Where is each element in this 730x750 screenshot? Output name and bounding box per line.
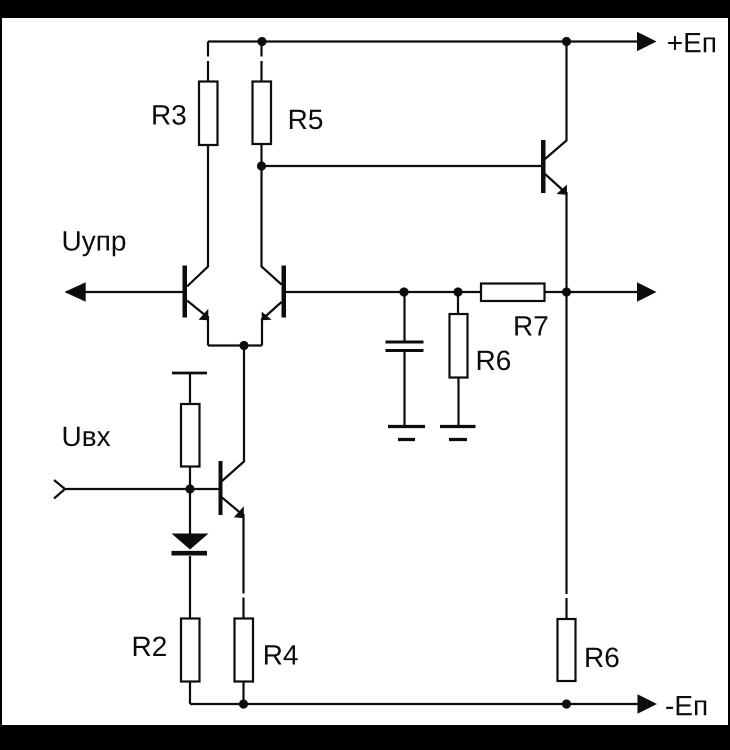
transistor VT4 base bar <box>219 461 223 515</box>
ground GND2 bar1 <box>440 425 476 428</box>
wire node B to VT3 base <box>262 165 542 167</box>
transistor VT1 base bar <box>183 266 188 318</box>
label R2 <box>134 636 166 656</box>
label R6a <box>478 350 510 370</box>
wire R6a bottom to ground <box>457 378 459 427</box>
input terminal bar <box>172 372 207 375</box>
junction dot bottom R6 node <box>562 699 571 708</box>
arrow Uupr left <box>65 282 86 301</box>
VT3 emitter arrowhead <box>556 185 567 195</box>
wire tail node down to VT4 collector <box>222 346 244 482</box>
wire R5 top stub <box>260 42 262 82</box>
resistor R5 <box>253 82 272 145</box>
label R3 <box>153 105 185 125</box>
label -Ep <box>666 696 706 715</box>
label Uupr <box>64 231 126 256</box>
wire output rail down to R6 bottom <box>565 292 567 619</box>
wire common tail horizontal <box>208 344 262 346</box>
resistor R4 <box>235 619 254 682</box>
wire VT1 emitter diagonal <box>187 301 208 318</box>
junction dot top R5 node <box>257 37 266 46</box>
arrow +Ep <box>637 32 657 51</box>
wire VT1 base to left arrow <box>66 291 183 293</box>
ground GND1 bar1 <box>388 425 425 428</box>
wire VT3 collector up to rail <box>545 42 567 160</box>
wire capacitor top <box>403 292 405 341</box>
junction dot top right node <box>562 37 571 46</box>
wire node B to VT2 collector <box>262 166 282 285</box>
wire VT2 base to node C <box>286 291 404 293</box>
wire VT2 emitter down <box>261 318 263 346</box>
wire VT4 emitter down to R4 <box>242 514 244 619</box>
label R5 <box>290 110 322 130</box>
diode VD1 cathode bar <box>172 551 208 556</box>
wire diode to R2 <box>189 556 191 619</box>
VT4 emitter arrowhead <box>234 506 244 518</box>
label R4 <box>265 645 298 664</box>
wire R5 bottom to node B <box>260 144 262 166</box>
transistor VT3 base bar <box>541 140 546 193</box>
wire VT3 emitter diagonal <box>545 174 567 194</box>
wire VT4 base to input node <box>190 488 219 490</box>
wire VT1 emitter down <box>207 316 209 346</box>
label Uvx <box>64 427 111 447</box>
junction dot node C <box>399 287 408 296</box>
resistor R2 <box>181 619 200 682</box>
junction dot output node <box>562 287 571 296</box>
VT2 emitter arrowhead <box>262 312 272 321</box>
wire R1 bottom to input node <box>189 467 191 490</box>
capacitor C1 bottom plate <box>386 349 424 352</box>
ground GND2 bar2 <box>449 438 467 441</box>
ground GND1 bar2 <box>398 438 415 441</box>
resistor R6b <box>558 619 576 681</box>
arrow -Ep <box>638 694 658 713</box>
diode VD1 triangle <box>172 534 209 550</box>
label R7 <box>515 316 547 335</box>
junction dot node B <box>257 161 266 170</box>
junction dot input node <box>185 484 194 493</box>
wire node D to R7 left <box>458 291 481 293</box>
resistor R7 <box>481 284 545 302</box>
wire input terminal down to R1 <box>189 373 191 404</box>
wire input lead <box>65 488 190 490</box>
wire R6a top <box>457 292 459 314</box>
wire node C to node D <box>404 291 458 293</box>
wire R7 right to output arrow <box>545 291 639 293</box>
label +Ep <box>668 33 715 52</box>
wire VT4 emitter diagonal <box>222 498 244 516</box>
wire VT2 emitter diagonal <box>262 302 282 320</box>
input chevron arrow <box>54 480 65 499</box>
resistor R6a shunt <box>450 314 468 378</box>
wire R2 bottom <box>189 682 191 705</box>
wire top +Ep rail <box>208 40 638 42</box>
VT1 emitter arrowhead <box>199 309 209 321</box>
wire capacitor bottom to ground <box>403 352 405 427</box>
transistor VT2 base bar <box>282 266 287 318</box>
arrow output right <box>637 282 657 301</box>
capacitor C1 top plate <box>386 341 424 344</box>
wire input node to diode <box>189 489 191 534</box>
resistor R1 input <box>181 404 200 467</box>
wire R4 bottom <box>242 682 244 705</box>
wire R3 bottom to VT1 collector <box>187 145 208 287</box>
junction dot node D <box>453 287 462 296</box>
wire R3 top stub <box>207 42 209 82</box>
label R6b <box>586 647 618 667</box>
wire VT3 emitter down to output rail <box>565 192 567 292</box>
wire bottom -Ep rail <box>190 703 638 705</box>
resistor R3 <box>199 82 218 146</box>
junction dot tail node <box>239 341 248 350</box>
junction dot bottom R4 node <box>239 699 248 708</box>
